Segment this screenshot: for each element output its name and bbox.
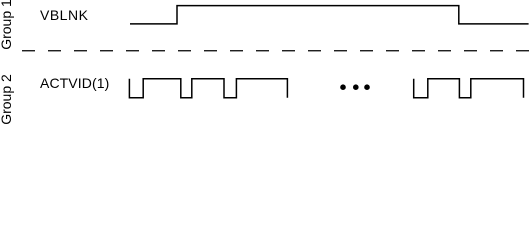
svg-text:ACTVID(1): ACTVID(1) (40, 75, 109, 91)
svg-text:VBLNK: VBLNK (40, 7, 89, 23)
svg-text:Group 2: Group 2 (0, 74, 14, 125)
svg-text:Group 1: Group 1 (0, 0, 14, 50)
wire ACTVID waveform left group (129, 79, 287, 98)
ellipsis dot 1 (340, 84, 346, 90)
group separator dashed line (22, 50, 530, 52)
ellipsis dot 2 (353, 84, 359, 90)
wire VBLNK waveform (130, 6, 529, 24)
wire ACTVID waveform right group (414, 79, 524, 98)
ellipsis dot 3 (364, 84, 370, 90)
